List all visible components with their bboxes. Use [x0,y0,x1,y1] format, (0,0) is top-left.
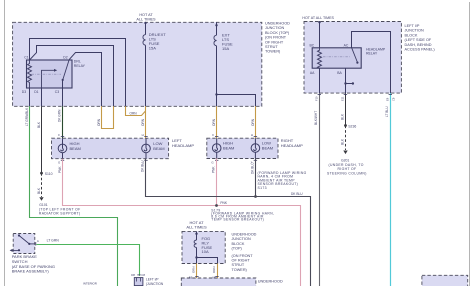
svg-text:PNK: PNK [220,201,227,205]
svg-text:RADIATOR SUPPORT): RADIATOR SUPPORT) [39,212,81,216]
svg-text:B8: B8 [189,276,193,280]
svg-text:LT GRN: LT GRN [47,239,60,243]
wire PNK from left high beam, across, down right side [63,159,301,286]
wire ORN down to right low beam [255,106,257,138]
DRL relay actuator arm D1 [42,70,55,88]
pins B8 A8 [195,276,198,278]
headlamp relay box [312,48,361,68]
svg-text:JUNCTION: JUNCTION [405,29,424,33]
svg-text:DK BLU: DK BLU [250,162,254,174]
DRL relay coil [28,61,32,89]
svg-text:S173: S173 [258,186,267,190]
svg-text:RELAY: RELAY [366,52,378,56]
svg-text:(JUNCTION: (JUNCTION [146,282,164,286]
svg-text:E11: E11 [341,96,345,101]
svg-text:A8: A8 [212,276,216,280]
park brake switch box [13,234,35,254]
splice S173 [254,195,257,198]
fuse symbol DRL/EXT [143,35,146,46]
DRL relay box [27,60,73,88]
svg-text:BLK: BLK [37,187,41,194]
wire AC up across down [352,32,391,94]
svg-text:BA: BA [337,71,342,75]
svg-text:G101: G101 [39,203,47,207]
fog fuse box (underhood junction block bottom) [182,231,225,263]
wire ORN jog from x=125.2 joining fuse drop [126,106,146,115]
svg-text:C8: C8 [391,97,395,101]
svg-text:OF RIGHT: OF RIGHT [265,40,284,44]
DRL/EXT LTS fuse wire [145,22,147,106]
splice S236 [344,124,347,127]
DRL relay switch blade [63,61,69,80]
fog fuse branch [197,258,218,279]
svg-text:BEAM: BEAM [223,146,234,151]
headlamp relay feed wire from top [319,22,321,48]
svg-text:LEFT I/P: LEFT I/P [146,278,159,282]
fuse symbol EXT [214,35,217,46]
wire BLK/WHT from AA down [319,93,321,286]
wire from C3 to box edge [62,80,64,106]
EXT LTS fuse wire [216,22,218,106]
svg-text:BC: BC [310,44,315,48]
svg-text:HOT AT ALL TIMES: HOT AT ALL TIMES [302,16,334,20]
EXT branch wire to right [217,95,256,107]
wire PNK from right high beam [216,159,218,206]
right high beam bulb [212,138,221,158]
svg-text:AA: AA [310,71,315,75]
connector pins D8 C8 [137,274,140,276]
wire LT BLU down [390,93,392,286]
wire DK BLU from right low beam [255,159,257,197]
splice S179 [215,204,218,207]
svg-text:BEAM: BEAM [153,146,164,151]
svg-text:ORN: ORN [130,112,138,116]
svg-text:BLK: BLK [340,138,344,145]
svg-text:LT BLU: LT BLU [385,106,389,117]
svg-text:TEMP SENSOR BREAKOUT): TEMP SENSOR BREAKOUT) [211,218,264,222]
wire AA down [319,68,321,93]
svg-text:RELAY: RELAY [74,64,86,68]
svg-text:D8: D8 [131,273,135,277]
svg-text:AC: AC [344,44,349,48]
headlamp connector pin ticks [61,137,257,161]
fog fuse wire [196,231,198,278]
svg-text:TOWER): TOWER) [232,268,248,272]
svg-text:F10: F10 [315,96,319,101]
svg-text:BLK/WHT: BLK/WHT [314,111,318,125]
left I/P junction block box (top right) [304,22,401,94]
svg-text:H: H [142,133,144,137]
wire BA down with stub [345,68,347,93]
wire ORN down to right high beam [216,106,218,138]
park brake switch S1 contacts [18,234,20,236]
headlamp relay switch blade [352,48,358,62]
wire D2 diagonal, across, down at x=101.8 [69,53,101,107]
svg-text:DK BLU: DK BLU [291,192,303,196]
svg-text:BEAM: BEAM [70,146,81,151]
svg-text:UNDERHOOD: UNDERHOOD [258,280,283,284]
svg-text:C8: C8 [141,273,145,277]
svg-text:ORN: ORN [251,118,255,126]
wire DK GRN from C3 to left high beam [62,106,64,138]
wire LT GRN from park brake [36,245,139,276]
fuse symbol FOG [194,240,196,248]
ground G201 [343,151,347,155]
svg-text:ORN: ORN [212,118,216,126]
right low beam bulb [251,138,260,158]
svg-text:ORN: ORN [212,267,216,273]
svg-text:HOT AT: HOT AT [139,13,153,17]
svg-text:BLK: BLK [37,121,41,128]
svg-text:STRUT: STRUT [232,263,245,267]
svg-text:H: H [251,133,253,137]
svg-text:15A: 15A [149,46,156,51]
wire BLK dashed to G101 [41,173,43,197]
svg-text:(ON FRONT: (ON FRONT [265,36,287,40]
wire ORN U-loop [102,106,114,128]
wire BLK from BA down to S236 [345,93,347,125]
svg-text:ALL TIMES: ALL TIMES [136,18,156,22]
svg-text:C1: C1 [24,56,28,60]
park brake switch blade [19,236,29,244]
connector symbol [134,278,143,286]
DRL relay switch contact to C3 [62,80,64,88]
wire C1 up and across, down at x=125.2 [30,39,126,107]
svg-text:S236: S236 [348,124,356,128]
wire BLK dashed to G201 [345,126,347,151]
svg-text:LT GRN/BLK: LT GRN/BLK [25,107,29,126]
right headlamp box [207,138,278,158]
svg-text:DK BLU: DK BLU [141,160,145,172]
svg-text:STRUT: STRUT [265,45,278,49]
svg-text:STEERING COLUMN): STEERING COLUMN) [327,171,367,175]
DRL relay link (dash-dot) [32,73,62,75]
svg-text:ACCESS PANEL): ACCESS PANEL) [405,48,436,52]
ground G101 [39,197,43,201]
svg-text:C3: C3 [55,90,59,94]
svg-text:(TOP): (TOP) [232,247,243,251]
left high beam bulb [58,138,67,159]
svg-text:TOWER): TOWER) [265,50,281,54]
page left border [4,0,6,286]
svg-text:BEAM: BEAM [262,146,273,151]
svg-text:F: F [212,133,214,137]
wire from D1 to box edge [41,88,43,106]
wire DK BLU from left low beam, across, down [146,159,311,286]
svg-text:BLOCK (TOP): BLOCK (TOP) [265,31,290,35]
wire ORN down to left low beam [145,106,147,138]
svg-text:ORN: ORN [97,118,101,126]
svg-text:ORN: ORN [141,118,145,126]
svg-text:(LEFT SIDE OF: (LEFT SIDE OF [405,38,432,42]
underhood junction block box (bottom) [181,278,256,286]
svg-text:UNDERHOOD: UNDERHOOD [232,233,257,237]
left headlamp box [52,138,169,159]
svg-text:DASH, BEHIND: DASH, BEHIND [405,43,432,47]
svg-text:HEADLAMP: HEADLAMP [172,143,194,148]
svg-text:BLOCK: BLOCK [232,242,245,246]
svg-text:ALL TIMES: ALL TIMES [186,224,207,229]
svg-text:G201: G201 [341,159,349,163]
wire BLK from D1 to S110 [41,106,43,173]
svg-text:D2: D2 [63,56,67,60]
svg-text:E9: E9 [385,97,389,101]
svg-text:A: A [37,239,39,243]
wire C1 diagonal branch, down at x=113.6 [30,46,113,107]
svg-text:D1: D1 [34,90,38,94]
wire blade to pin A [29,243,35,245]
headlamp relay coil [318,48,322,68]
left low beam bulb [142,138,151,159]
wires D3 D1 C3 inside box [29,88,31,106]
junction block pin ticks [318,94,392,96]
wire LT GRN/BLK from D3 [30,106,118,286]
svg-text:JUNCTION: JUNCTION [232,237,251,241]
pin A [35,242,37,245]
underhood junction block box (top left) [13,22,262,106]
small box (bottom right) [422,275,468,286]
svg-text:OF RIGHT: OF RIGHT [232,259,251,263]
svg-text:INTERIOR: INTERIOR [83,282,97,286]
park brake arrow [12,249,19,251]
svg-text:BRAKE ASSEMBLY): BRAKE ASSEMBLY) [12,269,50,274]
svg-text:ORN: ORN [192,267,196,273]
svg-text:PNK: PNK [212,166,216,173]
svg-text:BLOCK: BLOCK [405,33,418,37]
headlamp relay link (dash-dot) [323,56,350,58]
splice S110 [40,172,43,175]
recolor fog wires below box (tan) [196,264,198,279]
svg-text:HEADLAMP: HEADLAMP [281,143,303,148]
svg-text:D3: D3 [22,90,26,94]
svg-text:(ON FRONT: (ON FRONT [232,254,254,258]
svg-text:PNK: PNK [58,166,62,173]
svg-text:LEFT I/P: LEFT I/P [405,24,420,28]
svg-text:15A: 15A [222,46,229,51]
svg-text:10A: 10A [202,249,209,254]
svg-text:UNDERHOOD: UNDERHOOD [265,22,290,26]
svg-text:F: F [58,133,60,137]
svg-text:DK GRN: DK GRN [58,109,62,122]
svg-text:BLK: BLK [340,113,344,120]
svg-text:JUNCTION: JUNCTION [265,26,284,30]
svg-text:S110: S110 [45,172,53,176]
page right border [469,2,471,286]
